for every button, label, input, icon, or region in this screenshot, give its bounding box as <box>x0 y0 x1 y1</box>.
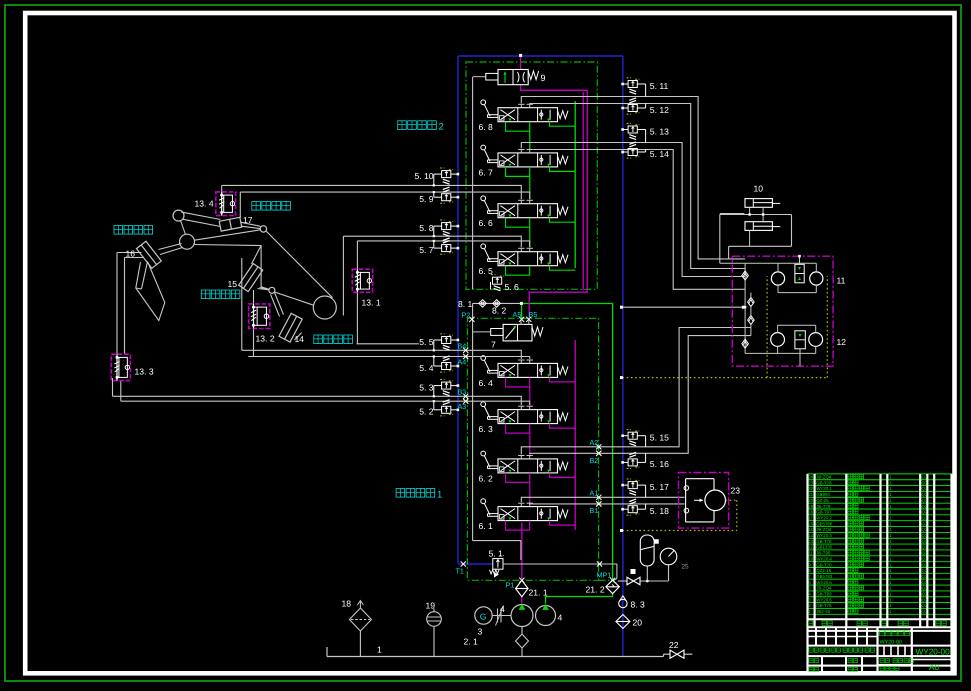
svg-text:Q2: Q2 <box>922 562 928 567</box>
svg-text:15: 15 <box>228 279 238 289</box>
link pins P1-P2 <box>181 221 186 235</box>
svg-text:7: 7 <box>491 340 496 350</box>
svg-text:18: 18 <box>808 510 813 515</box>
svg-text:JB-T96: JB-T96 <box>816 551 831 556</box>
svg-text:GB1235: GB1235 <box>816 545 833 550</box>
label 5.10 <box>414 171 433 181</box>
pilot relief valve 9 <box>473 70 539 85</box>
valve group 2 boundary (dash-dot) <box>466 62 597 289</box>
label 5.11 <box>650 81 669 91</box>
svg-text:13. 1: 13. 1 <box>362 298 381 308</box>
label 5.3 <box>419 382 434 392</box>
svg-text:5. 11: 5. 11 <box>650 81 669 91</box>
label 7 <box>491 340 496 350</box>
label 23 <box>731 486 741 496</box>
directional valve 6.4 <box>481 356 575 387</box>
svg-text:12: 12 <box>808 545 813 550</box>
drain boundary (yellow dotted) <box>620 276 827 379</box>
svg-text:JB-ZQ4: JB-ZQ4 <box>816 527 832 532</box>
svg-text:GB-T89: GB-T89 <box>816 592 832 597</box>
return filter 20 <box>616 615 630 629</box>
wire bucket cylinder lines <box>117 253 144 355</box>
title block <box>808 627 953 673</box>
coupling <box>496 606 504 626</box>
svg-text:5. 16: 5. 16 <box>650 459 669 469</box>
svg-text:A3: A3 <box>458 402 467 411</box>
node A5 <box>513 310 525 322</box>
svg-text:5. 5: 5. 5 <box>419 337 434 347</box>
motor check valve ladder <box>742 263 778 353</box>
relief valve 5.16 <box>621 452 645 468</box>
svg-text:20: 20 <box>633 618 643 628</box>
svg-text:Q2: Q2 <box>922 609 928 614</box>
arm structure <box>194 245 270 290</box>
svg-text:5. 10: 5. 10 <box>414 171 433 181</box>
directional valve 6.7 <box>481 145 575 176</box>
svg-text:11: 11 <box>837 276 846 286</box>
label 5.12 <box>650 105 669 115</box>
wire pilot supply left vertical <box>473 77 521 560</box>
svg-text:B5: B5 <box>529 310 538 319</box>
svg-text:14: 14 <box>295 334 305 344</box>
svg-text:6. 2: 6. 2 <box>479 473 494 483</box>
directional valve 6.1 <box>481 499 575 530</box>
label 5.17 <box>650 482 669 492</box>
svg-text:Q2: Q2 <box>922 533 928 538</box>
cylinder group 10 <box>745 199 780 231</box>
svg-text:WY20.2: WY20.2 <box>816 515 832 520</box>
boom cylinder 14 body <box>279 313 302 342</box>
label 6.4 <box>479 378 494 388</box>
shutoff valve <box>627 569 640 585</box>
pilot valve 7 <box>473 320 543 341</box>
node P1 <box>506 578 525 590</box>
svg-text:QZ2-16: QZ2-16 <box>816 568 831 573</box>
wire 6.7 lines to motor 12 <box>521 143 745 290</box>
label 4 coupling <box>500 604 505 614</box>
node A2 <box>590 438 602 450</box>
svg-text:2: 2 <box>439 122 444 133</box>
svg-text:WY20-00: WY20-00 <box>916 648 951 657</box>
svg-text:Q2: Q2 <box>922 510 928 515</box>
relief valve 5.13 <box>621 123 645 142</box>
label 17 <box>243 215 253 225</box>
shuttle valve 8.1 <box>473 300 523 308</box>
swing motor boundary <box>679 473 729 529</box>
shuttle valve 8.2 <box>493 300 501 308</box>
relief valve 5.2 <box>433 400 460 416</box>
air filter 18 <box>349 601 371 657</box>
node B3 <box>458 388 469 399</box>
svg-text:WY20.4: WY20.4 <box>816 556 832 561</box>
breather valve 8.3 <box>619 596 627 608</box>
svg-text:5. 4: 5. 4 <box>419 363 434 373</box>
parts table header <box>808 619 953 627</box>
svg-text:19: 19 <box>808 504 813 509</box>
wire A1 B1 lines to motor 23 <box>521 497 684 504</box>
svg-text:B1: B1 <box>590 506 599 515</box>
svg-text:14: 14 <box>808 533 813 538</box>
label arm cylinder <box>252 202 291 211</box>
directional valve 6.3 <box>481 402 575 433</box>
pin joint link 15 <box>269 287 275 293</box>
parts table column bars <box>808 474 952 673</box>
svg-text:8. 2: 8. 2 <box>492 306 507 316</box>
label 5.2 <box>419 407 434 417</box>
svg-text:Q2: Q2 <box>922 486 928 491</box>
label 15 <box>228 279 238 289</box>
label 18 <box>342 599 352 609</box>
label auxiliary cylinder <box>201 290 240 299</box>
boom upper chord <box>266 231 333 298</box>
balance valve 13.2 <box>249 304 270 329</box>
svg-text:P2: P2 <box>462 311 471 320</box>
svg-text:GB5786: GB5786 <box>816 521 833 526</box>
svg-text:Q2: Q2 <box>922 556 928 561</box>
svg-text:5. 12: 5. 12 <box>650 105 669 115</box>
directional valve 6.2 <box>481 451 575 482</box>
bucket cylinder rod <box>159 244 183 255</box>
svg-text:6. 5: 6. 5 <box>479 266 494 276</box>
svg-text:A4: A4 <box>458 357 467 366</box>
svg-text:16: 16 <box>808 521 813 526</box>
directional valve 6.6 <box>481 196 575 227</box>
svg-text:G: G <box>480 611 487 621</box>
pin joint boom top <box>180 234 195 249</box>
level gauge 19 <box>427 609 442 657</box>
svg-text:Q2: Q2 <box>922 475 928 480</box>
svg-text:QZ-25: QZ-25 <box>816 498 829 503</box>
label 5.15 <box>650 433 669 443</box>
svg-text:GB-T78: GB-T78 <box>816 480 832 485</box>
node B2 <box>590 451 602 465</box>
label 5.4 <box>419 363 434 373</box>
relief valve 5.7 <box>433 238 460 254</box>
bucket cylinder 16 body <box>136 241 161 268</box>
svg-text:Q2: Q2 <box>922 568 928 573</box>
label 11 <box>837 276 846 286</box>
label 5.18 <box>650 506 669 516</box>
label 6.6 <box>479 218 494 228</box>
wire dash-dot extension to MP1 <box>599 579 615 581</box>
svg-text:4: 4 <box>500 604 505 614</box>
directional valve 6.8 <box>481 100 575 131</box>
pin joint 17 <box>260 226 266 232</box>
svg-text:JB-ZQ4: JB-ZQ4 <box>816 475 832 480</box>
wire swing motor drain (yellow) <box>620 500 737 532</box>
svg-text:JB2-25: JB2-25 <box>816 609 830 614</box>
svg-text:8. 3: 8. 3 <box>631 600 646 610</box>
svg-text:23: 23 <box>808 480 813 485</box>
label 13.2 <box>256 334 275 344</box>
wire green pilot line from pump 2 <box>522 304 613 604</box>
svg-text:Q2: Q2 <box>922 574 928 579</box>
svg-text:25: 25 <box>682 564 690 571</box>
svg-text:1: 1 <box>377 645 382 655</box>
relief valve 5.11 <box>621 78 645 97</box>
svg-text:24: 24 <box>808 475 813 480</box>
svg-text:A0: A0 <box>929 663 939 672</box>
auxiliary cylinder 15 body <box>239 264 263 292</box>
svg-text:5. 14: 5. 14 <box>650 149 669 159</box>
wire green group2 riser <box>574 101 576 268</box>
svg-text:5. 2: 5. 2 <box>419 407 434 417</box>
svg-text:13. 2: 13. 2 <box>256 334 275 344</box>
svg-text:2. 1: 2. 1 <box>464 637 479 647</box>
svg-text:GB-T70: GB-T70 <box>816 562 832 567</box>
svg-text:6. 1: 6. 1 <box>479 521 494 531</box>
bucket <box>136 262 165 321</box>
relief valve 5.12 <box>621 98 645 114</box>
svg-text:WY20.6: WY20.6 <box>816 597 832 602</box>
node A1 second mark <box>596 501 601 506</box>
wire A2 B2 lines to motor 12 <box>521 328 751 455</box>
label 5.7 <box>419 245 434 255</box>
relief valve 5.14 <box>621 142 645 158</box>
pin joint upper <box>173 210 184 221</box>
node A2 second mark <box>596 451 601 456</box>
svg-text:13: 13 <box>808 539 813 544</box>
link P2 to pin17 <box>194 230 260 240</box>
relief valve 5.6 <box>491 275 504 291</box>
node B5 <box>526 310 537 322</box>
svg-text:11: 11 <box>808 551 813 556</box>
svg-text:5. 13: 5. 13 <box>650 126 669 136</box>
svg-text:T1: T1 <box>456 567 464 576</box>
svg-text:B4: B4 <box>458 342 467 351</box>
wire tank make-up line to motors <box>620 306 745 309</box>
electric motor 3 <box>475 607 511 624</box>
filter 21.1 <box>516 580 529 597</box>
wire 6.5 work lines to 13.1 <box>343 236 529 344</box>
svg-text:B2: B2 <box>590 456 599 465</box>
accumulator 25 <box>640 535 658 566</box>
wire accumulator line <box>618 565 669 582</box>
label 6.8 <box>479 122 494 132</box>
svg-text:4: 4 <box>558 613 563 623</box>
node A1 <box>590 488 602 500</box>
svg-text:10: 10 <box>754 184 764 194</box>
svg-text:10: 10 <box>808 556 813 561</box>
node P2 <box>462 311 475 322</box>
label 3 <box>478 627 483 637</box>
label 8.2 <box>492 306 507 316</box>
label 5.9 <box>419 194 434 204</box>
relief valve 5.3 <box>433 380 460 398</box>
svg-text:GB5783: GB5783 <box>816 574 833 579</box>
svg-text:3: 3 <box>478 627 483 637</box>
svg-text:22: 22 <box>669 640 679 650</box>
svg-text:Q2: Q2 <box>922 492 928 497</box>
travel motor 11 <box>771 255 823 293</box>
svg-text:18: 18 <box>342 599 352 609</box>
wire pilot staircases <box>529 131 531 502</box>
svg-text:Q2: Q2 <box>922 521 928 526</box>
label 21.1 <box>529 588 548 598</box>
label 8.3 <box>631 600 646 610</box>
label 14 <box>295 334 305 344</box>
svg-text:GB893: GB893 <box>816 492 830 497</box>
svg-text:GB-T78: GB-T78 <box>816 539 832 544</box>
svg-text:19: 19 <box>426 601 436 611</box>
boom cylinder rod <box>271 293 284 317</box>
wire magenta group1 riser <box>574 340 576 530</box>
node A3 <box>458 399 469 411</box>
label 5.6 <box>505 282 520 292</box>
label 20 <box>633 618 643 628</box>
svg-text:Q2: Q2 <box>922 515 928 520</box>
svg-text:Q2: Q2 <box>922 586 928 591</box>
parts table cell entries <box>808 474 928 614</box>
svg-text:WY20.1: WY20.1 <box>816 486 832 491</box>
label 5.14 <box>650 149 669 159</box>
label 5.1 <box>489 549 504 559</box>
relief valve 5.1 <box>490 556 505 578</box>
wire 6.6 work lines to arm cylinder <box>222 185 530 218</box>
svg-text:22: 22 <box>808 486 813 491</box>
label 6.3 <box>479 424 494 434</box>
wire blue manifold boundary <box>458 56 623 657</box>
label valve group 2 <box>398 121 444 133</box>
balance valve 13.3 <box>111 354 130 380</box>
label 22 <box>669 640 679 650</box>
balance valve 13.1 <box>352 269 372 292</box>
suction filter 2.1 <box>516 627 529 657</box>
svg-text:P1: P1 <box>506 581 515 590</box>
svg-text:Q2: Q2 <box>922 551 928 556</box>
svg-text:MP1: MP1 <box>597 571 612 580</box>
svg-text:1: 1 <box>437 490 442 501</box>
svg-text:9: 9 <box>541 73 546 83</box>
svg-text:5. 7: 5. 7 <box>419 245 434 255</box>
svg-text:5. 15: 5. 15 <box>650 433 669 443</box>
label 13.3 <box>135 367 154 377</box>
label 6.1 <box>479 521 494 531</box>
travel motor group boundary <box>732 256 833 366</box>
svg-text:WY20-00: WY20-00 <box>880 640 902 646</box>
wire magenta P1 drop <box>521 523 523 604</box>
label 5.13 <box>650 126 669 136</box>
svg-text:21. 1: 21. 1 <box>529 588 548 598</box>
svg-text:GB-T97: GB-T97 <box>816 510 832 515</box>
node A4 <box>458 354 469 366</box>
node T1 <box>456 561 466 575</box>
parts table row lines <box>808 474 953 614</box>
svg-text:20: 20 <box>808 498 813 503</box>
svg-text:6. 6: 6. 6 <box>479 218 494 228</box>
label 6.5 <box>479 266 494 276</box>
svg-text:Q2: Q2 <box>922 592 928 597</box>
svg-text:13. 4: 13. 4 <box>195 199 214 209</box>
svg-text:21: 21 <box>808 492 813 497</box>
svg-text:Q2: Q2 <box>922 527 928 532</box>
svg-text:Q2: Q2 <box>922 498 928 503</box>
label 6.7 <box>479 167 494 177</box>
svg-text:21. 2: 21. 2 <box>586 585 605 595</box>
label 13.4 <box>195 199 214 209</box>
label 1 <box>377 645 382 655</box>
valve group 1 boundary (dash-dot) <box>467 318 598 580</box>
relief valve 5.18 <box>621 499 645 515</box>
main pump 2 <box>536 604 556 626</box>
wire magenta pilot from top port <box>519 54 522 70</box>
svg-text:A1: A1 <box>590 488 599 497</box>
svg-text:GB-T76: GB-T76 <box>816 603 832 608</box>
shutoff valve 22 <box>670 650 684 658</box>
svg-text:Q2: Q2 <box>922 603 928 608</box>
travel motor 12 <box>771 325 823 366</box>
svg-text:A2: A2 <box>590 438 599 447</box>
svg-text:6. 8: 6. 8 <box>479 122 494 132</box>
svg-text:5. 17: 5. 17 <box>650 482 669 492</box>
svg-text:Q2: Q2 <box>922 580 928 585</box>
arm cylinder 17 body <box>219 217 242 231</box>
label 12 <box>837 337 847 347</box>
label 5.5 <box>419 337 434 347</box>
svg-text:5. 8: 5. 8 <box>419 223 434 233</box>
arm cylinder rod links <box>182 212 261 229</box>
node MP1 <box>597 571 616 583</box>
relief valve 5.10 <box>433 168 460 187</box>
label 10 <box>754 184 764 194</box>
svg-text:Q2: Q2 <box>922 539 928 544</box>
directional valve 6.5 <box>481 244 575 275</box>
label valve group 1 <box>396 489 442 501</box>
boom cylinder foot <box>294 333 301 341</box>
svg-text:6. 3: 6. 3 <box>479 424 494 434</box>
svg-text:17: 17 <box>243 215 253 225</box>
swing motor 23 <box>684 479 725 522</box>
svg-text:JB-T79: JB-T79 <box>816 504 831 509</box>
node B4 <box>458 342 469 353</box>
svg-text:B3: B3 <box>458 388 467 397</box>
relief valve 5.15 <box>621 430 645 447</box>
svg-text:6. 4: 6. 4 <box>479 378 494 388</box>
wire tank line <box>327 647 692 657</box>
label 4 pump <box>558 613 563 623</box>
filter 21.2 <box>606 580 620 594</box>
svg-text:17: 17 <box>808 515 813 520</box>
svg-text:5. 9: 5. 9 <box>419 194 434 204</box>
svg-text:8. 1: 8. 1 <box>458 299 473 309</box>
label 6.2 <box>479 473 494 483</box>
svg-text:13. 3: 13. 3 <box>135 367 154 377</box>
wire cylinder 10 bracket <box>720 207 792 263</box>
label 8.1 <box>458 299 473 309</box>
pressure gauge <box>660 548 677 565</box>
relief valve 5.9 <box>433 187 460 203</box>
label 21.2 <box>586 585 605 595</box>
main pump 1 <box>511 604 533 627</box>
svg-text:12: 12 <box>837 337 847 347</box>
label bucket cylinder <box>114 226 153 235</box>
svg-text:Q2: Q2 <box>922 504 928 509</box>
svg-text:Q2: Q2 <box>922 545 928 550</box>
svg-text:5. 1: 5. 1 <box>489 549 504 559</box>
label 25 <box>682 564 690 571</box>
link 15 to pin <box>258 289 270 290</box>
svg-text:5. 3: 5. 3 <box>419 382 434 392</box>
relief valve 5.17 <box>621 479 645 497</box>
boom lower chord <box>260 288 314 306</box>
svg-text:15: 15 <box>808 527 813 532</box>
label 9 <box>541 73 546 83</box>
label 5.16 <box>650 459 669 469</box>
label boom cylinder <box>314 335 353 344</box>
wire B3 A3 lines to 13.3 <box>113 378 530 405</box>
wire magenta pilot valve9 to group2 <box>521 85 588 319</box>
svg-text:6. 7: 6. 7 <box>479 167 494 177</box>
